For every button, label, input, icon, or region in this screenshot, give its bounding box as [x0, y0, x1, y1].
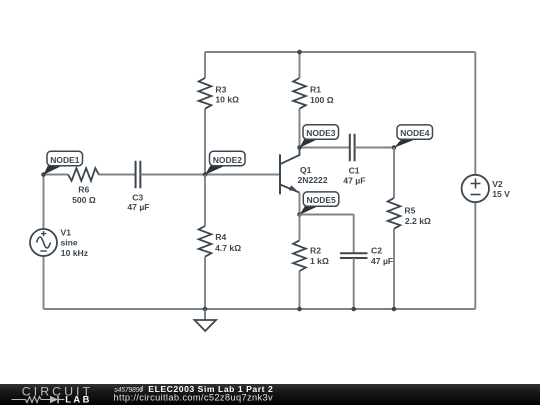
node NODE4	[392, 125, 433, 150]
svg-text:R2: R2	[310, 246, 321, 256]
svg-text:47 µF: 47 µF	[343, 175, 365, 185]
node NODE5	[297, 192, 339, 217]
svg-text:R6: R6	[78, 184, 89, 194]
node NODE2	[203, 151, 245, 177]
svg-text:LAB: LAB	[65, 395, 92, 405]
svg-text:10 kHz: 10 kHz	[61, 248, 88, 258]
capacitor C2	[340, 215, 393, 310]
svg-text:2N2222: 2N2222	[298, 175, 328, 185]
wire collector to C1	[300, 147, 350, 149]
node NODE1	[41, 151, 82, 177]
svg-text:2.2 kΩ: 2.2 kΩ	[405, 216, 431, 226]
svg-text:R4: R4	[215, 232, 226, 242]
svg-text:http://circuitlab.com/c52z8uq7: http://circuitlab.com/c52z8uq7znk3v	[114, 393, 274, 403]
svg-text:NODE3: NODE3	[306, 128, 336, 138]
svg-text:NODE4: NODE4	[400, 128, 430, 138]
svg-text:C1: C1	[349, 166, 360, 176]
svg-text:15 V: 15 V	[492, 189, 510, 199]
svg-text:47 µF: 47 µF	[371, 256, 393, 266]
junction bottom rail / R2	[297, 307, 302, 312]
svg-text:100 Ω: 100 Ω	[310, 95, 334, 105]
node NODE3	[297, 125, 338, 150]
svg-text:1 kΩ: 1 kΩ	[310, 256, 329, 266]
junction bottom rail / C2	[351, 307, 356, 312]
wire NODE5 to C2	[300, 214, 354, 216]
junction bottom rail / R5	[392, 307, 397, 312]
svg-text:4.7 kΩ: 4.7 kΩ	[215, 243, 241, 253]
svg-text:NODE2: NODE2	[213, 155, 243, 165]
transistor Q1	[280, 148, 328, 195]
wire top rail	[205, 51, 475, 53]
svg-text:500 Ω: 500 Ω	[72, 195, 96, 205]
resistor R3	[199, 52, 239, 175]
svg-text:47 µF: 47 µF	[127, 202, 149, 212]
wire C1 to NODE4	[355, 147, 394, 149]
capacitor C3	[127, 161, 149, 212]
svg-text:V2: V2	[492, 179, 503, 189]
svg-text:R3: R3	[215, 84, 226, 94]
wire bottom rail	[44, 308, 476, 310]
resistor R4	[199, 175, 242, 310]
capacitor C1	[343, 134, 365, 186]
svg-text:NODE5: NODE5	[307, 195, 337, 205]
svg-text:R1: R1	[310, 84, 321, 94]
resistor R6	[44, 168, 136, 205]
ground	[195, 307, 217, 331]
junction top rail / R1	[297, 50, 302, 55]
svg-text:R5: R5	[404, 206, 415, 216]
svg-text:10 kΩ: 10 kΩ	[215, 95, 239, 105]
svg-text:Q1: Q1	[300, 165, 312, 175]
resistor R5	[388, 148, 431, 310]
wire NODE2 row to Q1 base	[140, 174, 280, 176]
source V2	[462, 52, 511, 309]
logo diode	[50, 396, 64, 404]
svg-text:NODE1: NODE1	[50, 155, 80, 165]
svg-text:V1: V1	[61, 228, 72, 238]
resistor R2	[293, 215, 329, 310]
svg-text:sine: sine	[61, 237, 78, 247]
resistor R1	[293, 52, 334, 148]
svg-text:C2: C2	[371, 246, 382, 256]
source V1	[30, 175, 88, 310]
wire emitter to NODE5	[299, 193, 301, 215]
logo circuit glyph wire	[12, 397, 51, 403]
